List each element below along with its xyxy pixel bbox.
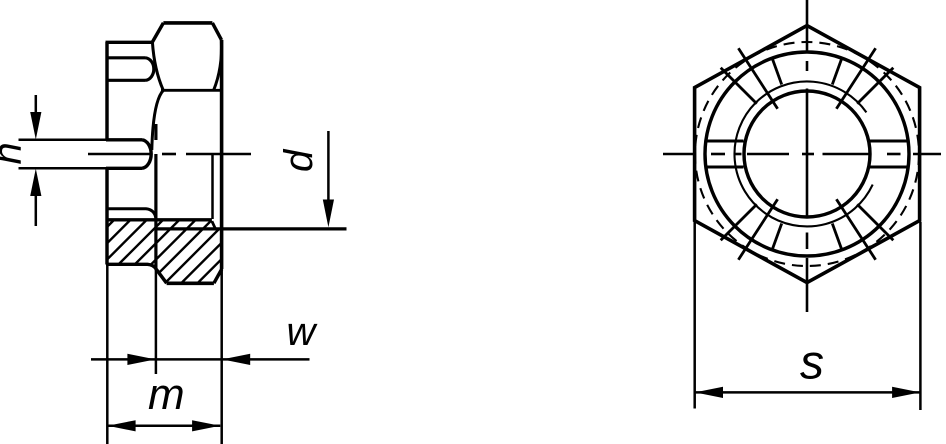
n dimension leader bottom — [35, 196, 38, 226]
slot 180deg (left) — [705, 141, 744, 167]
s dimension line — [695, 391, 921, 394]
slot 60deg radial walls and slot-edge lines (upper right) — [832, 48, 893, 108]
hex right chamfer arc (top band) — [214, 41, 222, 90]
d dimension leader — [327, 131, 330, 200]
horizontal centerline — [663, 153, 941, 156]
hex bottom chamfer right — [214, 269, 222, 283]
svg-text:w: w — [287, 310, 319, 354]
svg-text:s: s — [800, 337, 824, 390]
hex left chamfer arc (middle band) — [152, 90, 164, 150]
hex body: left chamfer slant — [152, 23, 163, 42]
vertical centerline — [806, 0, 809, 312]
thread major line / d reference — [156, 227, 347, 230]
hex bottom chamfer left — [156, 269, 167, 283]
arrows — [30, 112, 334, 431]
s arrows — [695, 387, 920, 398]
s extension line left — [693, 222, 696, 409]
chamfer circle (dashed) — [695, 42, 919, 266]
w arrow left (points right) — [127, 354, 155, 365]
slot 240deg radial walls and slot-edge lines (lower left) — [721, 199, 782, 259]
extension line from hex left face (w) — [155, 269, 158, 374]
crown outer circle — [705, 52, 909, 256]
hex left chamfer arc (top band) — [152, 42, 163, 90]
countersink edge — [211, 155, 214, 219]
svg-text:d: d — [277, 148, 321, 172]
svg-text:m: m — [148, 370, 185, 419]
hexagon outline — [695, 26, 920, 283]
d arrow (points down) — [323, 200, 334, 228]
extension line from hex right face (w,m) — [220, 269, 223, 444]
n arrow lower (points up) — [30, 169, 41, 196]
hex right chamfer slant — [212, 23, 221, 40]
n arrow upper (points down) — [30, 112, 41, 140]
thread major circle (3/4) — [734, 81, 872, 226]
slot 120deg radial walls and slot-edge lines (upper left) — [721, 48, 782, 108]
crown/hex boundary edge — [154, 124, 157, 140]
hex corner line — [161, 89, 222, 92]
crown bottom edge (section) — [106, 264, 156, 269]
svg-text:n: n — [0, 142, 30, 164]
lower slot edge in section — [107, 209, 156, 218]
m dimension line — [107, 425, 220, 428]
crown left face — [105, 42, 108, 140]
hex bottom edge — [167, 281, 214, 285]
hex top flat — [163, 21, 212, 25]
m arrow right (points right) — [192, 420, 220, 431]
m arrow left (points left) — [108, 420, 136, 431]
slot 0deg (right) — [870, 141, 909, 167]
axis centerline (left view) — [88, 153, 251, 156]
crown top edge — [106, 41, 153, 44]
w dimension line — [91, 358, 310, 361]
center slot (facing viewer) — [106, 140, 151, 169]
extension line from crown left face (m) — [106, 265, 109, 444]
bore circle — [744, 91, 870, 217]
hex right face — [220, 40, 224, 269]
bore chamfer — [212, 221, 215, 228]
w arrow right (points left) — [222, 354, 250, 365]
slot 300deg radial walls and slot-edge lines (lower right) — [832, 199, 893, 259]
center slot extension lines for n — [19, 139, 107, 142]
bore line (thread minor) — [107, 218, 212, 221]
s extension line right — [919, 222, 922, 410]
upper slot — [106, 58, 154, 81]
n dimension leader top — [35, 95, 38, 112]
